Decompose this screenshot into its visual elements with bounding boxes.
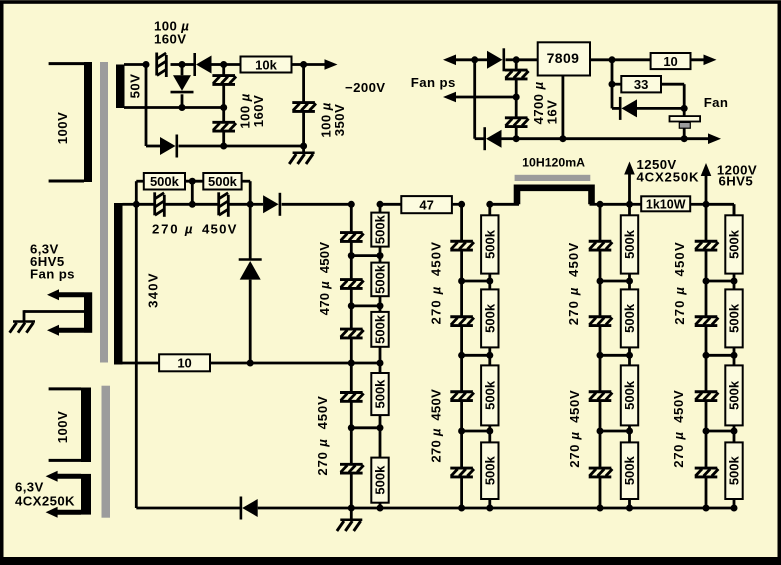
resistor 500k (stack1 R4) bbox=[371, 363, 388, 428]
wire choke to stack3 bbox=[590, 203, 601, 206]
node doubler out bbox=[247, 201, 254, 208]
wire H to G bbox=[224, 145, 304, 148]
wire A down left branch bbox=[145, 65, 148, 147]
node fan top bbox=[681, 105, 688, 112]
capacitor 270u (stack1 section 4) bbox=[340, 363, 364, 428]
capacitor 470u (stack1 section 1) bbox=[340, 204, 364, 255]
resistor 500k (doubler 1) bbox=[144, 173, 185, 190]
7809 ground pin bbox=[562, 76, 565, 139]
svg-text:Fan ps: Fan ps bbox=[30, 267, 75, 282]
node C6 bottom bbox=[513, 135, 520, 142]
svg-text:1k10W: 1k10W bbox=[646, 198, 686, 212]
svg-text:500k: 500k bbox=[727, 380, 742, 410]
resistor 500k (stack2 R1) bbox=[481, 204, 498, 281]
T2 primary winding 100V bbox=[49, 388, 91, 463]
node row (stack4 rail 4) bbox=[703, 505, 738, 512]
node A2 bbox=[133, 201, 140, 208]
node row (stack3 rail 0) bbox=[597, 201, 634, 208]
wire to 10 bbox=[612, 58, 651, 61]
node row (stack3 rail 2) bbox=[597, 352, 634, 359]
svg-text:100V: 100V bbox=[55, 411, 70, 443]
node row (stack4 rail 0) bbox=[703, 201, 710, 208]
node row (stack1 rail 5) bbox=[348, 505, 384, 512]
wire 33 to fan node bbox=[661, 84, 684, 108]
capacitor 270u (stack3 section 1) bbox=[589, 204, 613, 281]
svg-text:10H120mA: 10H120mA bbox=[522, 156, 585, 170]
node row (stack2 rail 3) bbox=[458, 428, 493, 435]
node H bbox=[220, 143, 227, 150]
output arrow 1200V bbox=[701, 163, 712, 204]
node A (50V top) bbox=[143, 61, 150, 68]
svg-text:500k: 500k bbox=[482, 455, 497, 485]
node between 500k bbox=[189, 178, 196, 185]
svg-text:500k: 500k bbox=[727, 303, 742, 333]
capacitor 270u (stack4 section 4) bbox=[695, 431, 719, 508]
node fan bottom bbox=[681, 135, 688, 142]
svg-text:450V: 450V bbox=[202, 222, 238, 237]
svg-text:16V: 16V bbox=[544, 100, 559, 125]
node F (-200V output) bbox=[300, 61, 307, 68]
svg-text:470 µ 450V: 470 µ 450V bbox=[317, 242, 332, 316]
capacitor 270u (stack2 section 4) bbox=[450, 431, 474, 508]
capacitor 270u (stack2 section 2) bbox=[450, 281, 474, 355]
svg-text:4CX250K: 4CX250K bbox=[15, 494, 75, 509]
svg-text:500k: 500k bbox=[622, 229, 637, 259]
resistor 500k (stack3 R3) bbox=[621, 355, 638, 431]
wire 10 to stack1 bbox=[210, 362, 351, 365]
svg-text:160V: 160V bbox=[251, 95, 266, 127]
svg-text:10k: 10k bbox=[255, 57, 277, 72]
wire bottom line bbox=[516, 137, 710, 140]
svg-text:270 µ 450V: 270 µ 450V bbox=[672, 241, 687, 325]
capacitor C5 4700u16V bbox=[505, 60, 529, 97]
capacitor C6 4700u16V bbox=[505, 97, 529, 139]
svg-text:−200V: −200V bbox=[345, 80, 386, 95]
wire 340V top lead bbox=[123, 203, 137, 206]
svg-text:4CX250K: 4CX250K bbox=[637, 170, 700, 185]
capacitor C8 270u450V bbox=[192, 192, 250, 217]
svg-text:350V: 350V bbox=[332, 104, 347, 136]
diode D8 (points up) bias leg bbox=[239, 204, 262, 363]
svg-text:500k: 500k bbox=[727, 455, 742, 485]
diode D1 (points left) bbox=[195, 53, 212, 76]
resistor 500k (stack1 R3) bbox=[371, 306, 388, 363]
capacitor 270u (stack3 section 4) bbox=[589, 431, 613, 508]
node G bbox=[300, 143, 307, 150]
capacitor 270u (stack1 section 5) bbox=[340, 428, 364, 508]
node fan-in-top bbox=[471, 56, 478, 63]
svg-text:500k: 500k bbox=[482, 303, 497, 333]
svg-text:500k: 500k bbox=[373, 379, 388, 409]
wire 340V bottom lead bbox=[123, 362, 160, 365]
left return wire (down) bbox=[136, 204, 240, 508]
capacitor 270u (stack4 section 1) bbox=[695, 204, 719, 281]
node row (stack1 rail 4) bbox=[348, 424, 384, 431]
resistor 500k (stack4 R2) bbox=[725, 281, 742, 355]
svg-text:500k: 500k bbox=[373, 264, 388, 294]
ground (stack1 bottom) bbox=[337, 508, 362, 531]
svg-text:270 µ: 270 µ bbox=[152, 222, 194, 237]
label 1200V 6HV5 bbox=[717, 163, 757, 189]
svg-text:270 µ 450V: 270 µ 450V bbox=[315, 395, 330, 475]
output arrow (after 10) bbox=[691, 55, 717, 66]
svg-text:500k: 500k bbox=[373, 465, 388, 495]
resistor 500k (stack4 R1) bbox=[725, 204, 742, 281]
T1 secondary winding 50V bbox=[116, 65, 125, 109]
resistor 500k (stack4 R3) bbox=[725, 355, 742, 431]
wire 7809 out bbox=[590, 58, 612, 61]
wire between 500k boxes bbox=[185, 180, 203, 183]
wire B to D1 bbox=[182, 63, 195, 66]
capacitor 270u (stack2 section 1) bbox=[450, 204, 474, 281]
svg-text:500k: 500k bbox=[208, 174, 238, 189]
svg-text:500k: 500k bbox=[622, 303, 637, 333]
label 4700u 16V bbox=[531, 81, 560, 124]
resistor 500k (stack1 R5) bbox=[371, 428, 388, 508]
node row (stack4 rail 3) bbox=[703, 428, 738, 435]
wire C1 to B bbox=[171, 63, 183, 66]
node row (stack2 rail 4) bbox=[458, 505, 493, 512]
resistor 10k bbox=[241, 57, 292, 73]
wire C5 to 7809 bbox=[516, 58, 538, 61]
node D bbox=[220, 61, 227, 68]
diode D4 (points right) bbox=[475, 48, 517, 71]
resistor 10 (HV) bbox=[159, 354, 210, 371]
node row (stack1 rail 3) bbox=[348, 360, 384, 367]
wire fan-out down bbox=[611, 60, 614, 84]
capacitor C2 100u160V bbox=[212, 65, 236, 108]
node C5 top bbox=[513, 56, 520, 63]
capacitor 270u (stack4 section 2) bbox=[695, 281, 719, 355]
wire mid 500k down to rail bbox=[191, 181, 194, 204]
wire D to 10k bbox=[224, 63, 241, 66]
label 100u 350V (C3) bbox=[318, 102, 347, 137]
diode D2 (points down, from B) bbox=[171, 65, 194, 108]
node 33 tap bbox=[609, 81, 616, 88]
wire stack2 to choke bbox=[490, 203, 519, 206]
resistor 500k (stack3 R2) bbox=[621, 281, 638, 355]
node row (stack2 rail 1) bbox=[458, 278, 493, 285]
T2 heater winding 6,3V bbox=[46, 471, 91, 518]
resistor 500k (stack1 R2) bbox=[371, 256, 388, 306]
resistor 500k (doubler 2) bbox=[203, 173, 241, 190]
output arrow 1250V bbox=[624, 162, 635, 205]
T1 winding 340V bbox=[114, 203, 123, 365]
capacitor C3 100u350V bbox=[292, 65, 316, 147]
node E bbox=[220, 104, 227, 111]
wire stack4 top jog bbox=[706, 204, 734, 215]
wire stack3 caps to res bbox=[600, 203, 630, 206]
wire rail stack3 to 1k bbox=[630, 203, 642, 206]
capacitor C4 100u160V bbox=[212, 108, 236, 147]
resistor 500k (stack1 R1) bbox=[371, 204, 388, 255]
svg-text:270 µ 450V: 270 µ 450V bbox=[567, 390, 582, 468]
resistor 10 (fan) bbox=[651, 53, 691, 69]
wire 47 to stack2 bbox=[452, 203, 462, 206]
svg-text:7809: 7809 bbox=[547, 50, 580, 66]
output arrow -200V bbox=[304, 59, 338, 70]
diode D6 (points left) fan flyback bbox=[612, 84, 684, 120]
svg-text:270 µ 450V: 270 µ 450V bbox=[566, 242, 581, 326]
svg-text:500k: 500k bbox=[150, 174, 180, 189]
node row (stack3 rail 3) bbox=[597, 428, 634, 435]
capacitor 270u (stack2 section 3) bbox=[450, 355, 474, 431]
diode D3 (points right) on bottom line bbox=[146, 135, 224, 158]
svg-text:100V: 100V bbox=[55, 112, 70, 144]
svg-text:47: 47 bbox=[419, 197, 433, 212]
diode D7 (points right) main rail bbox=[250, 193, 351, 216]
node C5 bottom bbox=[513, 94, 520, 101]
capacitor 470u (stack1 section 2) bbox=[340, 256, 364, 306]
resistor 500k (stack2 R2) bbox=[481, 281, 498, 355]
resistor 1k10W bbox=[641, 196, 690, 211]
svg-text:500k: 500k bbox=[482, 229, 497, 259]
fan ps input arrow mid bbox=[443, 92, 516, 103]
wire 500k2 right down bbox=[242, 181, 251, 204]
capacitor C7 270u450V bbox=[136, 192, 192, 217]
diode D5 (points left) bottom line bbox=[475, 127, 517, 150]
T1 heater center tap wire bbox=[24, 310, 84, 321]
diode D9 (points left) bottom rail bbox=[241, 497, 258, 520]
node row (stack4 rail 1) bbox=[703, 278, 738, 285]
T1 primary winding 100V bbox=[49, 62, 92, 182]
wire stack1 to 47 bbox=[380, 203, 401, 206]
svg-text:500k: 500k bbox=[622, 455, 637, 485]
capacitor 470u (stack1 section 3) bbox=[340, 306, 364, 363]
node doubler mid bbox=[189, 201, 196, 208]
node row (stack1 rail 1) bbox=[348, 252, 384, 259]
T1 heater winding 6,3V bbox=[47, 289, 92, 335]
resistor 500k (stack3 R4) bbox=[621, 431, 638, 508]
svg-text:10: 10 bbox=[177, 356, 191, 371]
regulator U1 7809 bbox=[538, 42, 590, 75]
svg-text:270 µ 450V: 270 µ 450V bbox=[428, 389, 443, 463]
wire to 33 bbox=[612, 83, 621, 86]
wire 50V top lead bbox=[124, 63, 146, 66]
svg-text:340V: 340V bbox=[146, 272, 161, 308]
choke L1 10H120mA bbox=[515, 175, 592, 205]
svg-text:6,3V: 6,3V bbox=[15, 480, 44, 495]
wire A2 up to 500k bbox=[136, 181, 144, 204]
node fan-out bbox=[609, 56, 616, 63]
svg-text:Fan: Fan bbox=[704, 95, 729, 110]
svg-text:500k: 500k bbox=[373, 214, 388, 244]
node B bbox=[179, 61, 186, 68]
capacitor 270u (stack3 section 3) bbox=[589, 355, 613, 431]
label 1250V 4CX250K bbox=[637, 157, 700, 185]
node row (stack2 rail 0) bbox=[458, 201, 493, 208]
label 100u 160V (C2/C4) bbox=[237, 93, 265, 128]
resistor 33 bbox=[621, 76, 661, 92]
label 100 u 160V (C1) bbox=[154, 19, 189, 47]
svg-text:6HV5: 6HV5 bbox=[719, 173, 754, 188]
node row (stack4 rail 2) bbox=[703, 352, 738, 359]
node row (stack1 rail 2) bbox=[348, 302, 384, 309]
svg-text:160V: 160V bbox=[154, 32, 186, 47]
svg-text:270 µ 450V: 270 µ 450V bbox=[671, 390, 686, 468]
svg-text:500k: 500k bbox=[622, 380, 637, 410]
node row (stack1 rail 0) bbox=[348, 201, 384, 208]
svg-text:270 µ 450V: 270 µ 450V bbox=[428, 241, 443, 325]
node row (stack2 rail 2) bbox=[458, 352, 493, 359]
resistor 500k (stack3 R1) bbox=[621, 204, 638, 281]
resistor 500k (stack2 R3) bbox=[481, 355, 498, 431]
svg-text:Fan ps: Fan ps bbox=[411, 75, 456, 90]
ground (heater tap) bbox=[10, 322, 35, 333]
bottom rail wire bbox=[258, 507, 734, 510]
fan ps input arrow top bbox=[443, 55, 475, 66]
capacitor 270u (stack3 section 2) bbox=[589, 281, 613, 355]
svg-text:500k: 500k bbox=[482, 380, 497, 410]
ground (bias) bbox=[289, 146, 314, 164]
resistor 500k (stack4 R4) bbox=[725, 431, 742, 508]
transformer T1 core bbox=[100, 62, 108, 363]
label 6,3V 4CX250K bbox=[15, 480, 75, 509]
wire 1k to stack4 bbox=[690, 203, 706, 206]
label 270u 450V (doubler) bbox=[152, 222, 238, 237]
wire 50V bottom lead row bbox=[124, 106, 224, 109]
capacitor C1 100u160V bbox=[157, 53, 167, 78]
resistor 500k (stack2 R4) bbox=[481, 431, 498, 508]
wire 10k to F bbox=[292, 63, 304, 66]
node row (stack3 rail 1) bbox=[597, 278, 634, 285]
transformer T2 core bbox=[102, 386, 111, 518]
label 6,3V 6HV5 Fan ps bbox=[30, 242, 75, 282]
svg-text:33: 33 bbox=[634, 77, 648, 92]
svg-text:50V: 50V bbox=[127, 74, 142, 99]
resistor 47 bbox=[401, 196, 452, 213]
wire input down branch bbox=[473, 60, 476, 139]
wire D1 to D bbox=[212, 63, 224, 66]
fan M1 symbol bbox=[670, 108, 701, 138]
node 7809 gnd bbox=[559, 135, 566, 142]
svg-text:10: 10 bbox=[663, 54, 677, 69]
node C bbox=[179, 104, 186, 111]
capacitor 270u (stack4 section 3) bbox=[695, 355, 719, 431]
node row (stack3 rail 4) bbox=[597, 505, 634, 512]
output arrow bottom bbox=[708, 133, 721, 144]
svg-text:500k: 500k bbox=[373, 314, 388, 344]
svg-text:500k: 500k bbox=[727, 229, 742, 259]
node D8 bottom bbox=[247, 360, 254, 367]
